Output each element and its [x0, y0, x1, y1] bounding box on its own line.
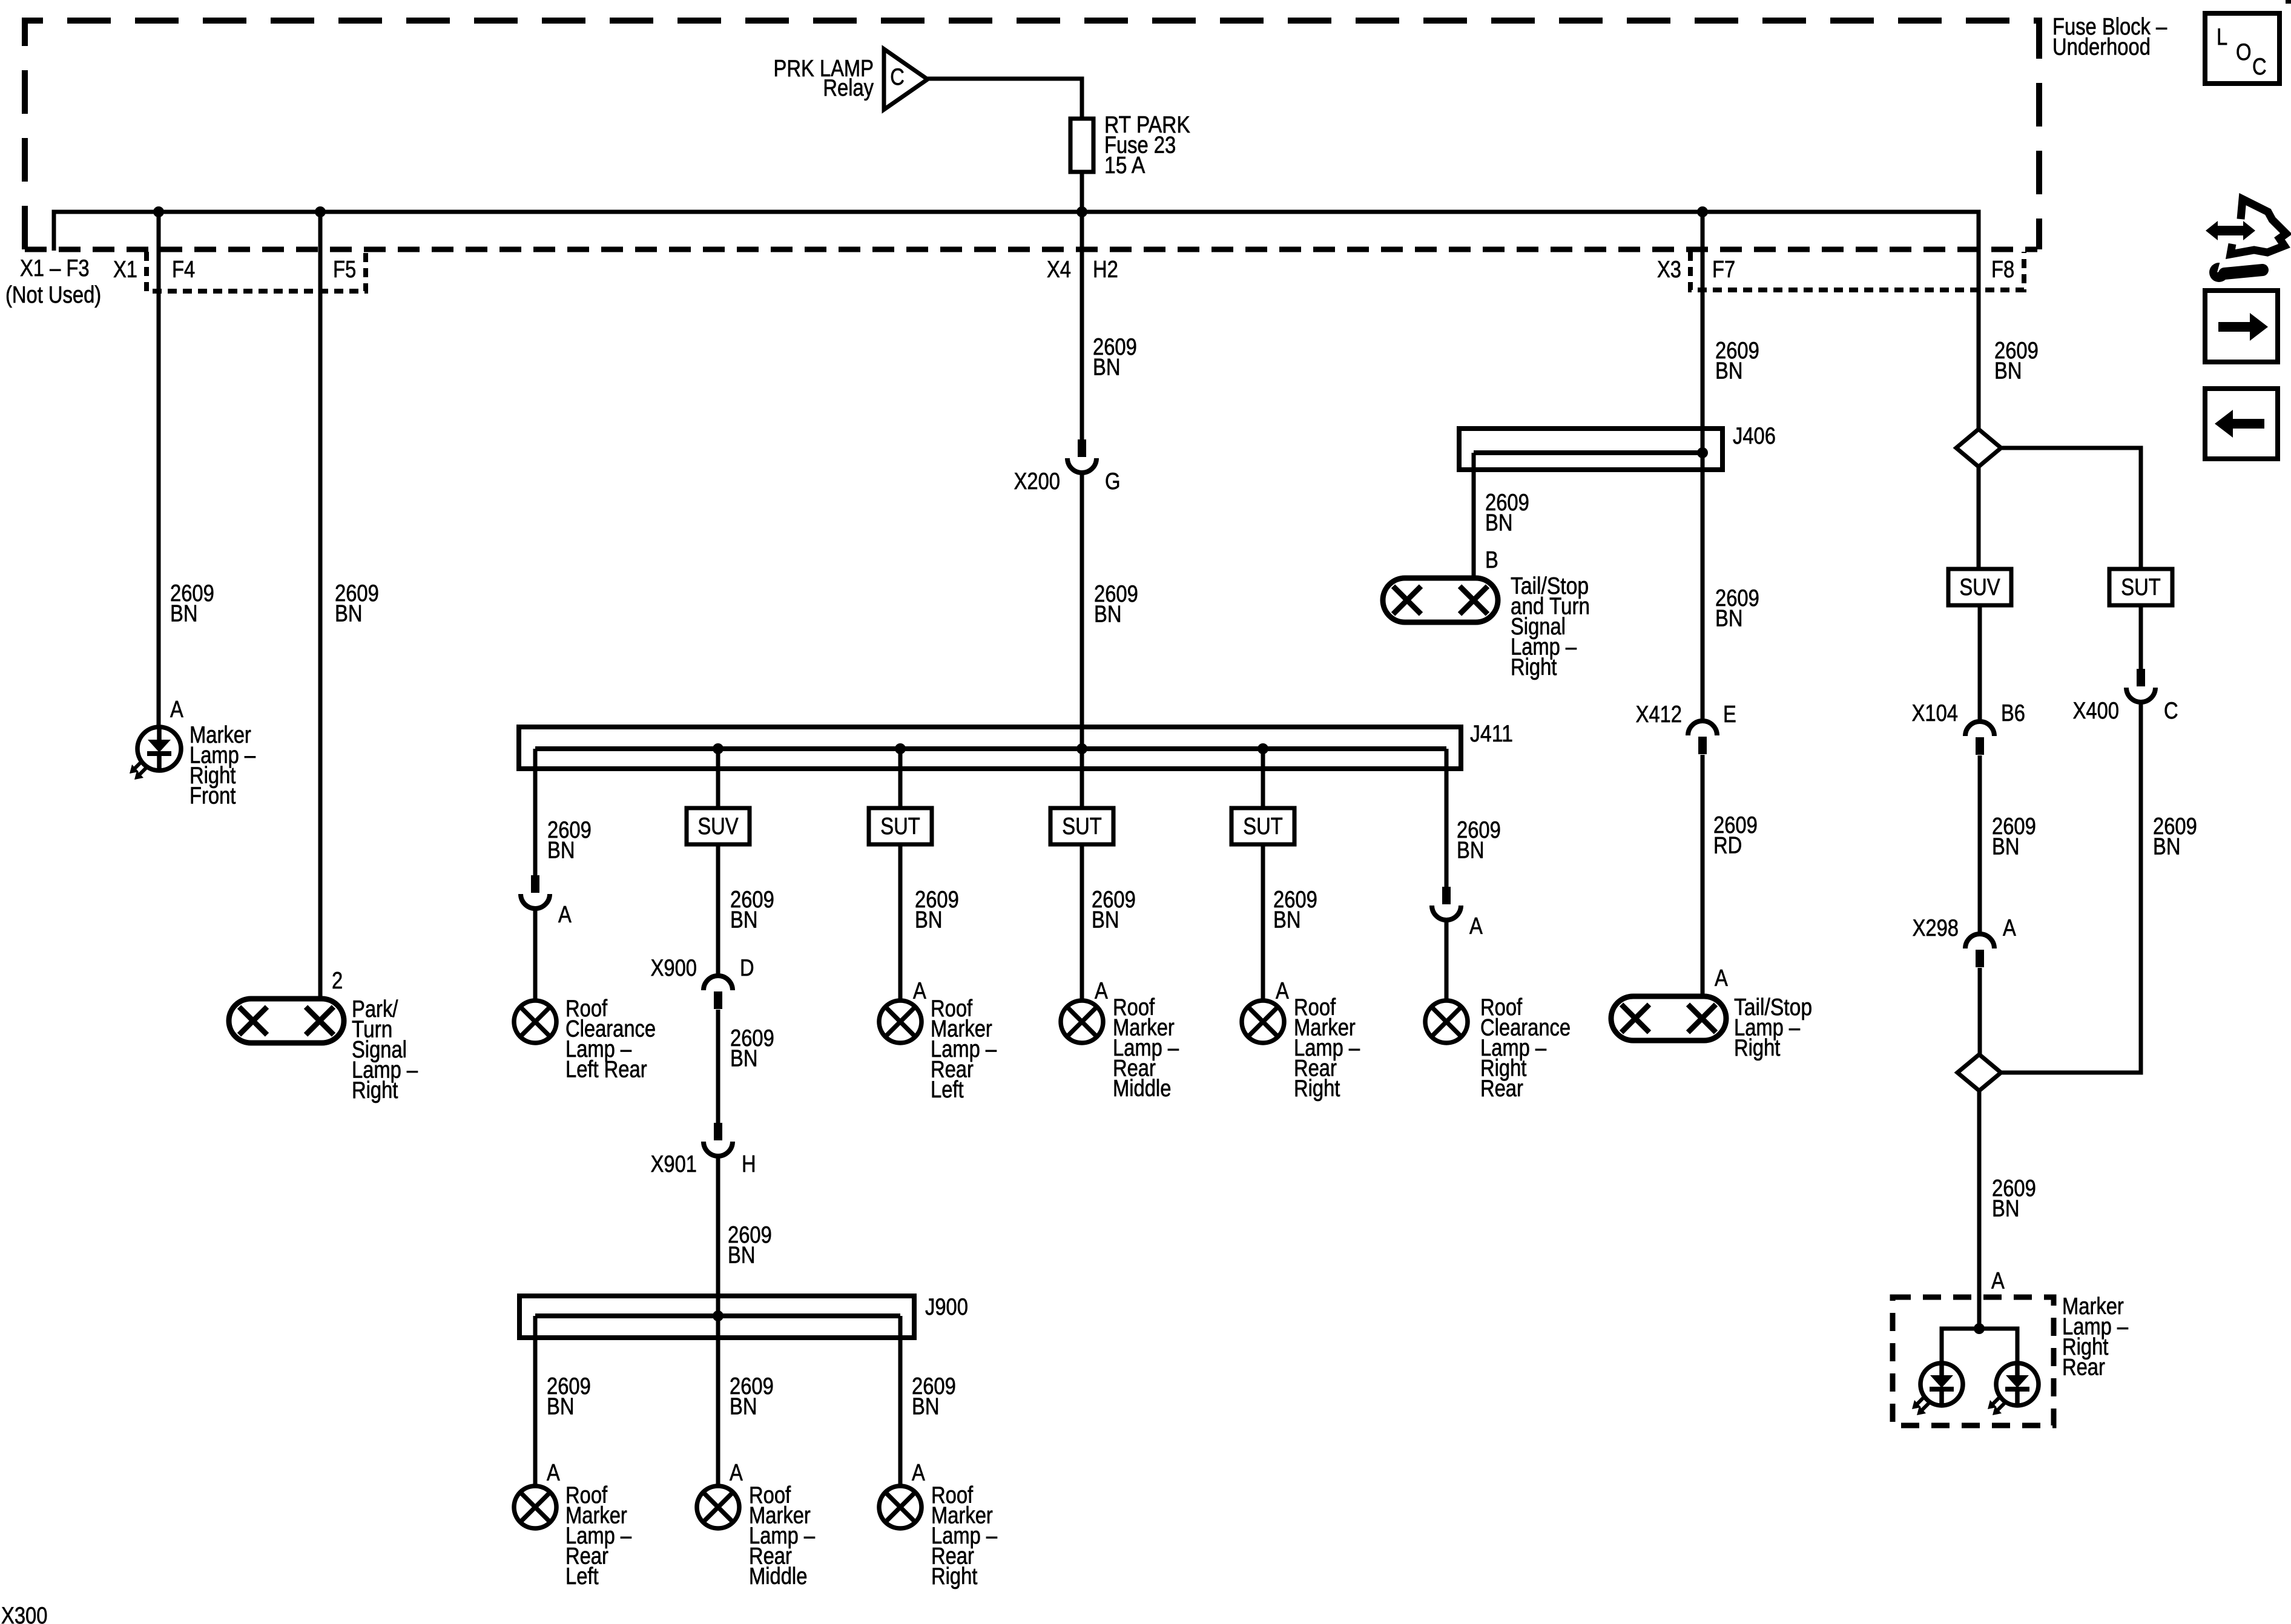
LED marker lamp right rear right bulb	[1996, 1363, 2039, 1405]
SUT option box 3	[1231, 808, 1294, 844]
svg-text:BN: BN	[1094, 602, 1122, 628]
svg-text:L: L	[2217, 24, 2227, 50]
connector X298 pin A	[1965, 934, 1994, 948]
svg-text:BN: BN	[335, 601, 363, 627]
junction dot J411 feed	[1076, 743, 1087, 754]
svg-text:Underhood: Underhood	[2052, 35, 2151, 61]
svg-text:15 A: 15 A	[1104, 153, 1145, 179]
wires to LED pair	[1942, 1329, 2017, 1363]
wire F7 to J406	[1701, 212, 1705, 429]
svg-text:Right: Right	[931, 1563, 978, 1589]
connector pin A right rear	[1442, 887, 1451, 904]
svg-text:BN: BN	[915, 907, 943, 933]
park/turn signal lamp right	[229, 999, 344, 1043]
svg-text:SUV: SUV	[1959, 574, 2000, 600]
wire J900 to roof marker rear middle bottom	[716, 1316, 720, 1487]
svg-text:X104: X104	[1912, 700, 1958, 726]
svg-text:A: A	[547, 1460, 560, 1486]
svg-text:SUT: SUT	[2121, 574, 2161, 600]
svg-text:BN: BN	[547, 1394, 575, 1420]
svg-text:Left: Left	[565, 1563, 599, 1589]
wire fuse to bus	[1080, 172, 1084, 212]
junction dot H2	[1076, 206, 1087, 217]
wire X104 to X298	[1978, 755, 1982, 935]
svg-text:BN: BN	[1273, 907, 1301, 933]
svg-text:BN: BN	[1994, 358, 2022, 384]
wire X200 to J411	[1080, 472, 1084, 749]
svg-text:BN: BN	[547, 838, 575, 864]
wire connector to lamp	[533, 908, 538, 1001]
vehicle service icon	[2230, 199, 2286, 254]
svg-text:J406: J406	[1733, 423, 1776, 449]
wire J406 to tail/stop turn lamp	[1472, 453, 1476, 579]
svg-text:F4: F4	[172, 257, 195, 283]
junction dot F7	[1697, 206, 1708, 217]
bus wire	[54, 212, 1979, 429]
svg-text:Right: Right	[1511, 654, 1557, 680]
SUV option box	[687, 808, 750, 844]
svg-text:X412: X412	[1636, 702, 1682, 728]
wire J900 to roof marker rear left bottom	[533, 1316, 538, 1487]
LED marker lamp right front	[137, 727, 181, 771]
junction dot J411 SUT1	[895, 743, 906, 754]
LED marker lamp right rear left bulb	[1920, 1363, 1963, 1405]
svg-text:Middle: Middle	[749, 1563, 807, 1589]
svg-text:BN: BN	[1715, 358, 1743, 384]
forward arrow box	[2205, 291, 2278, 362]
svg-text:A: A	[913, 978, 926, 1004]
svg-text:X1: X1	[113, 257, 137, 283]
svg-text:BN: BN	[1485, 510, 1513, 536]
svg-text:BN: BN	[1715, 606, 1743, 632]
svg-text:X300: X300	[1, 1603, 47, 1624]
svg-text:Front: Front	[190, 783, 236, 809]
junction dot J900	[713, 1310, 724, 1321]
svg-text:2: 2	[332, 968, 343, 994]
svg-text:X1 – F3: X1 – F3	[20, 255, 90, 281]
wire J411 to roof marker rear left	[898, 749, 903, 808]
svg-text:BN: BN	[1992, 834, 2020, 860]
svg-text:BN: BN	[1093, 355, 1121, 381]
svg-text:X298: X298	[1913, 915, 1959, 941]
roof marker lamp rear left bottom	[514, 1486, 556, 1528]
roof marker lamp rear right bottom	[879, 1486, 921, 1528]
svg-text:BN: BN	[1992, 1196, 2020, 1222]
roof marker lamp rear middle bottom	[697, 1486, 739, 1528]
svg-text:RD: RD	[1713, 833, 1742, 859]
svg-text:SUT: SUT	[1062, 814, 1102, 840]
svg-text:E: E	[1723, 702, 1736, 728]
wire J411 to roof marker rear right	[1261, 749, 1265, 808]
svg-text:A: A	[2003, 915, 2016, 941]
svg-text:A: A	[1276, 978, 1289, 1004]
roof marker lamp rear right	[1242, 1001, 1284, 1043]
svg-text:A: A	[1715, 965, 1728, 991]
svg-text:BN: BN	[170, 601, 198, 627]
svg-text:C: C	[2252, 54, 2267, 80]
svg-text:SUT: SUT	[880, 814, 920, 840]
roof clearance lamp right rear	[1425, 1001, 1468, 1043]
svg-text:X3: X3	[1657, 257, 1681, 283]
fuse block underhood dashed border top/left/right	[25, 21, 2039, 249]
svg-text:Rear: Rear	[1480, 1076, 1523, 1102]
svg-text:X4: X4	[1047, 257, 1071, 283]
wire J411 to SUV connector	[716, 749, 720, 808]
svg-text:BN: BN	[1092, 907, 1119, 933]
svg-text:A: A	[170, 697, 183, 723]
diamond splice lower	[1957, 1054, 2001, 1091]
svg-text:Middle: Middle	[1113, 1076, 1171, 1102]
svg-text:F5: F5	[333, 257, 356, 283]
svg-text:B6: B6	[2001, 700, 2025, 726]
connector X400 pin C	[2137, 669, 2145, 686]
svg-text:G: G	[1105, 468, 1121, 495]
splice pack J406	[1459, 429, 1722, 470]
svg-text:H: H	[742, 1151, 756, 1177]
svg-text:A: A	[1991, 1268, 2005, 1294]
junction dot F5	[315, 206, 326, 217]
svg-text:SUV: SUV	[697, 814, 739, 840]
svg-text:H2: H2	[1093, 257, 1118, 283]
connector pin A left rear	[531, 875, 539, 893]
junction dot F4	[153, 206, 164, 217]
wire X400 to diamond lower	[2001, 702, 2141, 1073]
wire J411 to roof marker rear middle	[1080, 749, 1084, 808]
svg-text:Right: Right	[352, 1077, 398, 1103]
connector X900 pin D	[704, 976, 733, 990]
SUT option box 2	[1050, 808, 1113, 844]
svg-text:O: O	[2236, 39, 2252, 65]
junction dot marker lamp right rear	[1974, 1323, 1985, 1334]
wire J900 to roof marker rear right bottom	[898, 1316, 903, 1487]
svg-text:C: C	[890, 64, 905, 90]
svg-text:Right: Right	[1734, 1035, 1781, 1061]
svg-text:Left: Left	[931, 1077, 964, 1103]
svg-text:A: A	[1095, 978, 1108, 1004]
svg-text:C: C	[2164, 698, 2178, 724]
svg-text:A: A	[730, 1460, 743, 1486]
svg-text:Relay: Relay	[823, 75, 874, 101]
svg-text:Right: Right	[1294, 1076, 1340, 1102]
splice pack J411	[519, 727, 1461, 769]
wire F5 to park/turn lamp	[318, 212, 323, 1000]
svg-text:BN: BN	[2153, 834, 2181, 860]
junction dot J411 SUT3	[1258, 743, 1268, 754]
wire F4 to marker lamp	[157, 212, 161, 728]
svg-text:BN: BN	[912, 1394, 940, 1420]
back arrow box	[2205, 389, 2278, 459]
svg-text:J900: J900	[925, 1294, 968, 1320]
wire X412 to tail/stop lamp	[1701, 755, 1705, 998]
svg-text:X200: X200	[1014, 468, 1060, 495]
wire X900 to X901	[716, 1010, 720, 1123]
roof clearance lamp left rear	[514, 1001, 556, 1043]
svg-text:BN: BN	[1457, 838, 1485, 864]
svg-text:SUT: SUT	[1243, 814, 1283, 840]
connector X901 pin H	[714, 1123, 722, 1140]
wire relay to fuse	[928, 79, 1082, 119]
svg-text:F7: F7	[1712, 257, 1735, 283]
relay PRK LAMP triangle pin C	[884, 49, 928, 110]
svg-text:Rear: Rear	[2062, 1355, 2105, 1381]
wire J411 to roof clearance right rear	[1445, 749, 1449, 887]
wire J411 to roof clearance left rear	[533, 749, 538, 875]
marker lamp right rear dashed box	[1893, 1297, 2054, 1425]
scan artifact top right corner	[2286, 0, 2291, 4]
svg-text:Left Rear: Left Rear	[565, 1057, 647, 1083]
wire SUV box to X104	[1978, 605, 1982, 722]
svg-text:A: A	[912, 1460, 925, 1486]
SUT option box right	[2109, 569, 2172, 605]
wire SUV to X900	[716, 844, 720, 976]
SUT option box 1	[869, 808, 932, 844]
junction dot J411 SUV	[713, 743, 724, 754]
fuse row dashed box F7 F8	[1690, 252, 2024, 290]
connector X200 pin G	[1078, 439, 1086, 457]
connector X412 pin E	[1688, 721, 1717, 735]
junction dot J406	[1697, 447, 1708, 458]
connector X104 pin B6	[1965, 722, 1994, 736]
svg-text:F8: F8	[1991, 257, 2014, 283]
splice pack J900	[519, 1296, 914, 1338]
svg-text:BN: BN	[730, 1046, 758, 1072]
svg-text:X400: X400	[2073, 698, 2119, 724]
svg-text:BN: BN	[728, 1243, 756, 1269]
svg-text:B: B	[1485, 547, 1498, 573]
svg-text:D: D	[740, 955, 754, 981]
wire right SUT branch	[2001, 448, 2141, 569]
wire diamond lower to marker lamp right rear	[1977, 1091, 1982, 1329]
fuse RT PARK Fuse 23 15 A	[1070, 119, 1093, 172]
wire SUT box to X400	[2139, 605, 2143, 669]
svg-text:BN: BN	[730, 1394, 757, 1420]
tail/stop lamp right	[1611, 996, 1726, 1040]
svg-text:BN: BN	[730, 907, 758, 933]
fuse row dashed box F4 F5	[147, 252, 366, 291]
wire H2 to X200	[1080, 212, 1084, 440]
tail/stop and turn signal lamp right	[1383, 578, 1498, 622]
svg-text:A: A	[558, 902, 572, 928]
wire diamond to SUV box	[1977, 467, 1981, 569]
SUV option box right	[1948, 569, 2011, 605]
roof marker lamp rear left	[879, 1001, 921, 1043]
svg-text:J411: J411	[1470, 721, 1513, 747]
fuse block dashed border bottom	[25, 247, 2037, 252]
diamond splice upper	[1956, 429, 2001, 467]
svg-text:X901: X901	[651, 1151, 697, 1177]
wire X298 to diamond lower	[1978, 968, 1982, 1054]
LOC legend box	[2205, 13, 2279, 84]
svg-text:X900: X900	[651, 955, 697, 981]
roof marker lamp rear middle	[1061, 1001, 1103, 1043]
wire X901 to J900	[716, 1156, 720, 1316]
wire through J406 to X412	[1701, 429, 1705, 722]
svg-text:A: A	[1469, 913, 1483, 939]
svg-text:(Not Used): (Not Used)	[5, 282, 101, 308]
